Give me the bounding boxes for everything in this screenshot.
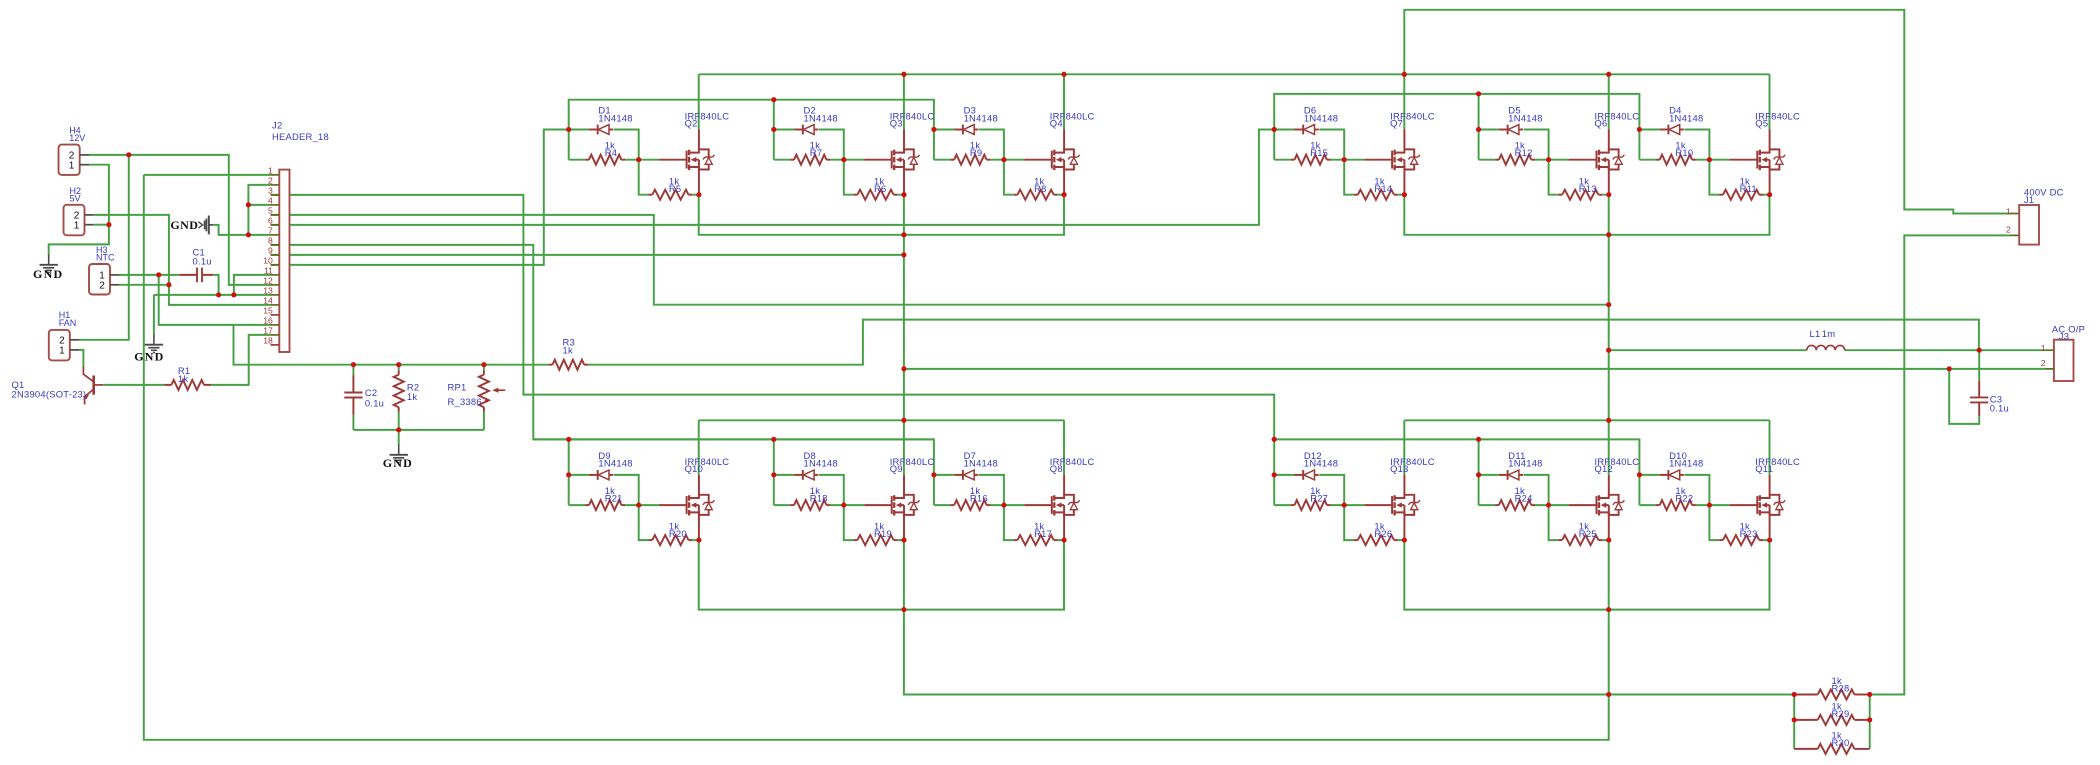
- node bank right R28: [1867, 692, 1872, 697]
- svg-text:GND: GND: [170, 218, 198, 232]
- capacitor C1: [179, 274, 213, 276]
- svg-text:18: 18: [263, 335, 273, 345]
- svg-text:1: 1: [74, 220, 80, 231]
- wire RP1 bottom lead: [483, 412, 485, 430]
- svg-text:R23: R23: [1740, 528, 1758, 539]
- wire drain pin of Q7: [1403, 130, 1405, 150]
- svg-text:Q9: Q9: [890, 463, 903, 474]
- node lower-right source bus at Q12: [1606, 607, 1611, 612]
- wire drain pin of Q9: [903, 475, 905, 495]
- wire drain pin of Q2: [698, 130, 700, 150]
- wire gate resistor R4 row: [569, 159, 659, 161]
- node pin7 junction: [246, 232, 251, 237]
- wire gate resistor R27 row: [1274, 504, 1364, 506]
- wire pin16 branch down to R3 row: [234, 325, 549, 365]
- svg-text:1N4148: 1N4148: [964, 458, 998, 469]
- node midpoint A to AC line: [901, 366, 906, 371]
- resistor R22: [1656, 504, 1660, 506]
- svg-text:1N4148: 1N4148: [804, 112, 838, 123]
- wire H4 pin1 to H2 pin1 and GND: [49, 165, 109, 255]
- wire source pin of Q9: [903, 515, 905, 540]
- svg-text:6: 6: [268, 215, 273, 225]
- wire C3 bottom to pin2 line: [1949, 369, 1979, 424]
- wire H3 pin1 to capacitor C1: [119, 274, 179, 276]
- resistor R13: [1558, 194, 1562, 196]
- node source junction of Q9: [902, 538, 907, 543]
- resistor R8: [1014, 194, 1018, 196]
- wire lower-right gate input rail: [1274, 439, 1639, 475]
- svg-text:Q7: Q7: [1390, 117, 1403, 128]
- wire D5 input node vertical: [1478, 130, 1480, 160]
- wire source pin of Q5: [1769, 170, 1771, 195]
- svg-text:R17: R17: [1034, 528, 1052, 539]
- node source junction of Q12: [1606, 538, 1611, 543]
- svg-text:Q11: Q11: [1755, 463, 1773, 474]
- connector J1 400V DC: [2006, 205, 2039, 245]
- wire pin13 GND line: [154, 294, 271, 296]
- svg-text:R21: R21: [605, 493, 623, 504]
- wire drain pin of Q3: [903, 130, 905, 150]
- svg-text:5: 5: [268, 205, 273, 215]
- capacitor C3: [1978, 381, 1980, 416]
- wire source pin of Q4: [1063, 170, 1065, 195]
- svg-text:3: 3: [268, 185, 273, 195]
- wire diode D9 top branch: [569, 475, 639, 505]
- svg-text:R22: R22: [1675, 493, 1693, 504]
- wire D4 input node vertical: [1638, 130, 1640, 160]
- svg-text:Q4: Q4: [1050, 117, 1063, 128]
- wire gate resistor R21 row: [569, 504, 659, 506]
- ground GND2: [145, 334, 163, 352]
- wire D7 input node vertical: [933, 475, 935, 505]
- wire gate resistor R9 row: [934, 159, 1024, 161]
- svg-text:1k: 1k: [563, 344, 573, 355]
- node bank left R28: [1792, 692, 1797, 697]
- wire diode D6 top branch: [1274, 130, 1344, 160]
- svg-text:5V: 5V: [70, 194, 81, 204]
- wire R2 top lead: [398, 365, 400, 371]
- svg-text:0.1u: 0.1u: [365, 397, 384, 408]
- wire H4 pin2 12V to J2 pin12: [89, 155, 271, 285]
- svg-text:4: 4: [268, 195, 273, 205]
- svg-text:R6: R6: [874, 183, 886, 194]
- svg-text:GND: GND: [383, 456, 413, 470]
- wire D12 input node vertical: [1273, 475, 1275, 505]
- wire J2 pin10 to upper-left gate bus: [271, 130, 569, 265]
- svg-text:2N3904(SOT-23): 2N3904(SOT-23): [12, 388, 87, 399]
- svg-text:R8: R8: [1034, 183, 1046, 194]
- diode D6: [1295, 129, 1304, 131]
- node bank right R29: [1867, 717, 1872, 722]
- wire J1 pin2 DC- down to shunt bank: [1870, 235, 2011, 694]
- node source junction of Q11: [1767, 538, 1772, 543]
- wire gate-source resistor R23 row: [1709, 505, 1769, 540]
- diode D1: [589, 129, 598, 131]
- wire diode D8 top branch: [774, 475, 844, 505]
- wire source pin of Q7: [1403, 170, 1405, 195]
- wire H2 pin2 / H3 pin2 to J2 pin14: [94, 215, 271, 305]
- diode D9: [589, 474, 598, 476]
- wire lower-left drain rail: [699, 420, 1064, 475]
- diode D10: [1660, 474, 1669, 476]
- wire J2 pin3 to lower-right gate bus: [271, 195, 1275, 475]
- node gate junction of Q6: [1546, 157, 1551, 162]
- node gate junction of Q8: [1001, 503, 1006, 508]
- wire diode D7 top branch: [934, 475, 1004, 505]
- wire lower-right source return: [1608, 540, 1610, 694]
- wire gate-source resistor R17 row: [1004, 505, 1064, 540]
- node lower-right rail at pin3 column: [1272, 437, 1277, 442]
- node gate junction of Q11: [1707, 503, 1712, 508]
- node upper-left rail branch: [771, 97, 776, 102]
- svg-text:9: 9: [268, 245, 273, 255]
- wire diode D3 top branch: [934, 130, 1004, 160]
- svg-text:11: 11: [264, 265, 273, 275]
- wire gate resistor R7 row: [774, 159, 864, 161]
- svg-text:1N4148: 1N4148: [598, 458, 632, 469]
- wire H2 pin1 stub: [94, 224, 109, 226]
- ground GND power symbol near J2 pin7: [198, 216, 213, 235]
- node source junction of Q4: [1062, 192, 1067, 197]
- svg-text:1k: 1k: [178, 373, 188, 384]
- svg-text:R24: R24: [1515, 493, 1533, 504]
- wire gate-source resistor R13 row: [1549, 160, 1609, 195]
- svg-text:R28: R28: [1832, 683, 1850, 694]
- node midpoint B at lower drain rail: [1606, 418, 1611, 423]
- node gate junction of Q4: [1001, 157, 1006, 162]
- node source junction of Q7: [1402, 192, 1407, 197]
- connector J2 HEADER_18: [263, 165, 289, 352]
- svg-text:1N4148: 1N4148: [1508, 458, 1542, 469]
- node source junction of Q3: [902, 192, 907, 197]
- wire gate-source resistor R26 row: [1344, 505, 1404, 540]
- wire diode D2 top branch: [774, 130, 844, 160]
- wire lower-right drain rail: [1404, 420, 1769, 475]
- wire drain pin of Q4: [1063, 130, 1065, 150]
- wire RP1 top lead: [483, 365, 485, 371]
- svg-text:1k: 1k: [407, 391, 417, 402]
- wire D10 input node vertical: [1638, 475, 1640, 505]
- node gate junction of Q12: [1546, 503, 1551, 508]
- wire diode D11 top branch: [1479, 475, 1549, 505]
- wire gate resistor R18 row: [774, 504, 864, 506]
- node C1 to pin13: [216, 292, 221, 297]
- wire gate-source resistor R5 row: [639, 160, 699, 195]
- svg-text:J2: J2: [272, 120, 282, 131]
- svg-text:R4: R4: [605, 147, 617, 158]
- svg-text:2: 2: [2041, 358, 2046, 368]
- diode D3: [954, 129, 963, 131]
- diode D4: [1660, 129, 1669, 131]
- wire upper-left gate input rail: [569, 100, 934, 130]
- node upper-right source bus at Q6: [1606, 232, 1611, 237]
- connector H2: [64, 186, 94, 235]
- node input junction of D12: [1272, 472, 1277, 477]
- resistor R28: [1794, 694, 1818, 696]
- node Q7 drain: [1402, 72, 1407, 77]
- mosfet Q5 IRF840LC: [1730, 149, 1785, 170]
- svg-text:R26: R26: [1374, 528, 1392, 539]
- resistor R24: [1495, 504, 1499, 506]
- svg-text:Q5: Q5: [1755, 117, 1768, 128]
- wire R1 right to J2 pin17: [211, 335, 271, 385]
- svg-text:17: 17: [263, 325, 273, 335]
- node source junction of Q6: [1606, 192, 1611, 197]
- wire J2 pin11 branch: [234, 275, 271, 295]
- svg-text:15: 15: [263, 305, 273, 315]
- svg-text:R_3386: R_3386: [448, 396, 482, 407]
- svg-text:1: 1: [59, 346, 65, 357]
- wire drain pin of Q11: [1769, 475, 1771, 495]
- node source junction of Q2: [696, 192, 701, 197]
- connector H3: [89, 245, 119, 295]
- svg-text:R27: R27: [1310, 493, 1328, 504]
- svg-text:1m: 1m: [1822, 328, 1836, 339]
- node midpoint B to L1 line: [1606, 348, 1611, 353]
- resistor R9: [950, 159, 954, 161]
- wire gate-source resistor R6 row: [844, 160, 904, 195]
- node input junction of D7: [931, 472, 936, 477]
- node Q4 drain: [1062, 72, 1067, 77]
- wire R3 to AC output sense: [588, 320, 1979, 365]
- node pin9 join: [901, 252, 906, 257]
- node lower-left source bus at Q9: [901, 607, 906, 612]
- svg-text:Q8: Q8: [1050, 463, 1063, 474]
- svg-text:R7: R7: [810, 147, 822, 158]
- node C3 branch on pin2 line: [1947, 366, 1952, 371]
- wire C3 top lead: [1978, 350, 1980, 381]
- node H3 pin1 branch to pin16: [156, 272, 161, 277]
- mosfet Q11 IRF840LC: [1730, 495, 1785, 516]
- svg-text:R25: R25: [1579, 528, 1597, 539]
- wire H1 pin1 to Q1 collector: [79, 350, 83, 366]
- svg-text:Q12: Q12: [1595, 463, 1613, 474]
- node lower-left rail branch D8: [771, 437, 776, 442]
- node input junction of D6: [1272, 127, 1277, 132]
- wire L1 line midpoint B to J3 pin1: [1609, 349, 2046, 351]
- wire gate-source resistor R20 row: [639, 505, 699, 540]
- svg-text:8: 8: [268, 235, 273, 245]
- resistor R16: [950, 504, 954, 506]
- node L1 line to C3: [1977, 348, 1982, 353]
- resistor R23: [1719, 539, 1723, 541]
- resistor R7: [790, 159, 794, 161]
- connector H1: [49, 310, 79, 360]
- node upper-left source bus at Q3: [901, 232, 906, 237]
- node lower-right rail branch D11: [1476, 437, 1481, 442]
- wire 12V branch down to H1 pin2 FAN: [79, 155, 129, 340]
- diode D11: [1499, 474, 1508, 476]
- wire upper-right source bus: [1404, 195, 1769, 235]
- wire lower-left source return to bottom: [904, 540, 1794, 694]
- mosfet Q13 IRF840LC: [1365, 495, 1420, 516]
- svg-text:L1: L1: [1810, 328, 1821, 339]
- wire D3 input node vertical: [933, 130, 935, 160]
- svg-text:R15: R15: [1310, 147, 1328, 158]
- svg-text:1N4148: 1N4148: [1669, 458, 1703, 469]
- node R2 top: [396, 362, 401, 367]
- wire divider bottom rail: [353, 429, 484, 431]
- resistor R4: [585, 159, 589, 161]
- svg-text:1N4148: 1N4148: [1304, 112, 1338, 123]
- resistor R1: [165, 384, 172, 386]
- resistor R18: [790, 504, 794, 506]
- svg-text:2: 2: [268, 175, 273, 185]
- wire J2 pin2 pin4 pin7 ground bus: [248, 185, 270, 235]
- diode D7: [954, 474, 963, 476]
- node Q3 drain: [901, 72, 906, 77]
- diode D12: [1295, 474, 1304, 476]
- node lower-left rail branch D9: [566, 437, 571, 442]
- inductor L1 1m: [1807, 345, 1845, 350]
- svg-text:RP1: RP1: [448, 382, 467, 393]
- svg-text:J3: J3: [2059, 330, 2069, 341]
- svg-text:Q13: Q13: [1390, 463, 1408, 474]
- node gate junction of Q10: [636, 503, 641, 508]
- node input junction of D5: [1476, 127, 1481, 132]
- wire lower-right source bus: [1404, 540, 1769, 610]
- resistor R10: [1656, 159, 1660, 161]
- node C2 top: [351, 362, 356, 367]
- wire gate resistor R15 row: [1274, 159, 1364, 161]
- node RP1 top: [481, 362, 486, 367]
- wire gate resistor R16 row: [934, 504, 1024, 506]
- node gate junction of Q5: [1707, 157, 1712, 162]
- wire pin1 long return rail to bottom: [144, 175, 1609, 740]
- mosfet Q8 IRF840LC: [1024, 495, 1079, 516]
- svg-text:R18: R18: [810, 493, 828, 504]
- svg-text:R16: R16: [970, 493, 988, 504]
- resistor R15: [1291, 159, 1295, 161]
- wire source pin of Q12: [1608, 515, 1610, 540]
- svg-text:1N4148: 1N4148: [1669, 112, 1703, 123]
- wire diode D5 top branch: [1479, 130, 1549, 160]
- wire shunt bank right vertical: [1869, 695, 1871, 749]
- svg-text:Q6: Q6: [1595, 117, 1608, 128]
- wire drain pin of Q10: [698, 475, 700, 495]
- node input junction of D3: [931, 127, 936, 132]
- wire C1 right to GND net pin13 line: [213, 275, 218, 295]
- wire source pin of Q6: [1608, 170, 1610, 195]
- wire source pin of Q11: [1769, 515, 1771, 540]
- node H2 pin1 junction: [106, 222, 111, 227]
- wire C2 top lead: [352, 365, 354, 375]
- svg-text:1N4148: 1N4148: [804, 458, 838, 469]
- svg-text:13: 13: [263, 285, 273, 295]
- wire source pin of Q8: [1063, 515, 1065, 540]
- resistor R5: [649, 194, 653, 196]
- wire D11 input node vertical: [1478, 475, 1480, 505]
- wire diode D4 top branch: [1639, 130, 1709, 160]
- wire gate-source resistor R8 row: [1004, 160, 1064, 195]
- wire Q1 base to R1: [103, 384, 164, 386]
- node gate junction of Q13: [1342, 503, 1347, 508]
- wire J2 pin9 to midpoint A sense: [271, 254, 904, 256]
- wire lower-left source bus: [699, 540, 1064, 610]
- node pin4 junction: [246, 202, 251, 207]
- svg-text:1: 1: [2006, 206, 2011, 216]
- svg-text:R19: R19: [874, 528, 892, 539]
- node gate junction of Q2: [636, 157, 641, 162]
- transistor Q1 2N3904: [83, 366, 104, 405]
- svg-text:14: 14: [263, 295, 273, 305]
- wire gate resistor R24 row: [1479, 504, 1569, 506]
- node bank left R29: [1792, 717, 1797, 722]
- diode D5: [1499, 129, 1508, 131]
- wire C2 bottom lead: [352, 415, 354, 430]
- node source return join: [1606, 692, 1611, 697]
- wire J2 pin1 line: [144, 174, 271, 176]
- svg-text:R5: R5: [669, 183, 681, 194]
- svg-text:0.1u: 0.1u: [1990, 403, 2009, 414]
- svg-text:J1: J1: [2024, 194, 2034, 205]
- wire branch down to J2 pin16: [159, 275, 271, 325]
- wire shunt bank left vertical: [1793, 695, 1795, 749]
- wire source pin of Q10: [698, 515, 700, 540]
- wire H3 pin2 stub: [119, 284, 169, 286]
- wire J2 pin8 to lower-left gate bus: [271, 245, 934, 475]
- node input junction of D2: [771, 127, 776, 132]
- svg-text:R9: R9: [970, 147, 982, 158]
- wire lower-left gate input rail: [533, 439, 934, 475]
- svg-text:R10: R10: [1675, 147, 1693, 158]
- wire D8 input node vertical: [773, 475, 775, 505]
- svg-text:Q2: Q2: [685, 117, 698, 128]
- resistor R12: [1495, 159, 1499, 161]
- node gate junction of Q3: [841, 157, 846, 162]
- wire source pin of Q13: [1403, 515, 1405, 540]
- wire drain pin of Q13: [1403, 475, 1405, 495]
- wire drain pin of Q8: [1063, 475, 1065, 495]
- svg-text:R11: R11: [1740, 183, 1757, 194]
- svg-text:GND: GND: [134, 350, 164, 364]
- svg-text:R20: R20: [669, 528, 687, 539]
- mosfet Q6 IRF840LC: [1569, 149, 1624, 170]
- node H3 pin2 junction: [166, 282, 171, 287]
- node input junction of D10: [1637, 472, 1642, 477]
- mosfet Q2 IRF840LC: [659, 149, 714, 170]
- potentiometer RP1 R_3386: [483, 370, 485, 374]
- wire DC+ top rail to J1 pin1: [1404, 10, 2010, 214]
- svg-text:2: 2: [99, 280, 105, 291]
- capacitor C2: [352, 375, 354, 415]
- svg-text:2: 2: [2006, 224, 2011, 234]
- resistor R2: [398, 370, 400, 374]
- svg-text:FAN: FAN: [59, 318, 77, 328]
- connector J3 AC O/P: [2041, 340, 2074, 381]
- svg-text:R12: R12: [1515, 147, 1533, 158]
- svg-text:1N4148: 1N4148: [964, 112, 998, 123]
- node input junction of D11: [1476, 472, 1481, 477]
- resistor R25: [1558, 539, 1562, 541]
- resistor R3: [549, 364, 553, 366]
- resistor R26: [1354, 539, 1358, 541]
- wire gate resistor R22 row: [1639, 504, 1729, 506]
- resistor R14: [1354, 194, 1358, 196]
- node source junction of Q10: [696, 538, 701, 543]
- svg-text:Q3: Q3: [890, 117, 903, 128]
- wire drain pin of Q12: [1608, 475, 1610, 495]
- node 12V branch: [126, 152, 131, 157]
- wire D6 input node vertical: [1273, 130, 1275, 160]
- resistor R17: [1014, 539, 1018, 541]
- node midpoint A at lower drain rail: [901, 418, 906, 423]
- svg-text:10: 10: [263, 255, 273, 265]
- node gate junction of Q9: [841, 503, 846, 508]
- svg-text:7: 7: [268, 225, 273, 235]
- wire source pin of Q3: [903, 170, 905, 195]
- node Q6 drain: [1606, 72, 1611, 77]
